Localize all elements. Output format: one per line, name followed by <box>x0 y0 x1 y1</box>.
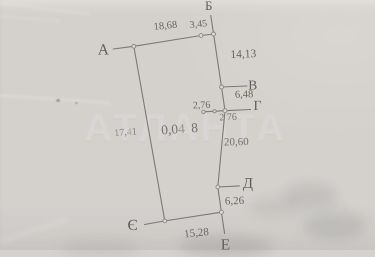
faint watermark bottom right <box>288 196 375 236</box>
svg-text:Д: Д <box>243 176 253 192</box>
svg-text:14,13: 14,13 <box>230 48 257 61</box>
wire E node down to E letter <box>221 212 224 233</box>
node jog 2 <box>213 110 216 113</box>
svg-text:17,41: 17,41 <box>114 126 137 139</box>
node E <box>219 210 223 214</box>
svg-text:Е: Е <box>221 237 230 251</box>
svg-text:Б: Б <box>205 0 212 13</box>
svg-text:2 76: 2 76 <box>219 112 237 124</box>
svg-text:2,76: 2,76 <box>193 100 211 112</box>
node T1 <box>199 34 203 38</box>
svg-text:6,26: 6,26 <box>225 195 245 208</box>
node G <box>223 109 227 113</box>
node A <box>132 44 136 48</box>
svg-text:В: В <box>248 78 257 93</box>
wire D to E node (6,26) <box>218 187 222 212</box>
svg-text:А: А <box>98 42 110 59</box>
crease top-left <box>0 1 90 15</box>
node T2 <box>212 32 216 36</box>
wire B down through T2 to V <box>211 16 222 88</box>
bottom mottling blobs <box>283 183 338 209</box>
wire Ye tick <box>145 221 165 225</box>
wire Ye to A (17,41) <box>134 46 165 221</box>
specks <box>56 99 61 102</box>
svg-text:Є: Є <box>128 217 138 234</box>
wire A tick <box>113 46 134 49</box>
wire A to T1 (18,68) <box>134 36 201 47</box>
node D <box>216 185 220 189</box>
wire G to D (20,60) <box>218 111 225 187</box>
wire T1 to T2 (3,45) <box>201 34 214 36</box>
svg-text:18,68: 18,68 <box>153 20 178 33</box>
svg-text:Г: Г <box>254 99 262 114</box>
svg-text:15,28: 15,28 <box>184 226 210 241</box>
wire G tick <box>225 110 251 111</box>
wire D tick <box>218 186 240 187</box>
svg-text:6,48: 6,48 <box>235 89 254 101</box>
svg-text:20,60: 20,60 <box>224 136 249 148</box>
node V <box>220 85 224 89</box>
svg-text:0,048: 0,048 <box>161 120 199 138</box>
svg-text:3,45: 3,45 <box>189 18 208 31</box>
node jog 1 <box>202 110 205 113</box>
wire V to G junction (6,48) <box>222 87 226 111</box>
wire V tick <box>222 86 248 87</box>
wire E node to Ye node (15,28) <box>164 212 221 221</box>
crease left-middle <box>0 94 110 104</box>
wire jog left of G (2,76) <box>203 111 225 112</box>
watermark АТЛАНТА <box>84 107 314 151</box>
node Ye <box>163 219 167 223</box>
